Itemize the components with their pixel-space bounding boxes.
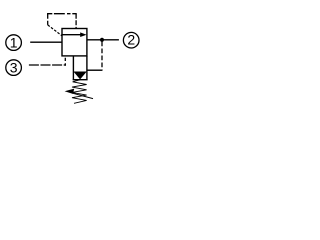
wire port 1 to valve — [30, 41, 62, 43]
pilot dashed box right edge — [75, 14, 77, 29]
svg-text:1: 1 — [10, 35, 18, 51]
wire spring chamber right — [87, 69, 103, 71]
pilot line dashed vertical right — [101, 42, 103, 71]
seat bottom edge — [73, 79, 88, 81]
port balloon 3 — [6, 59, 22, 75]
main valve box — [62, 29, 87, 56]
svg-text:2: 2 — [127, 32, 135, 48]
spring — [72, 80, 87, 104]
wire port 2 from valve — [87, 39, 119, 41]
pilot diagonal dashed line — [48, 25, 62, 36]
background — [0, 0, 151, 121]
pilot dashed box left edge — [47, 14, 49, 25]
drain dashed vertical to box bottom — [64, 58, 66, 66]
poppet triangle — [73, 72, 86, 80]
seat right wall (box edge extension) — [86, 56, 88, 80]
junction dot — [100, 38, 104, 42]
port balloon 1 — [6, 35, 22, 51]
port balloon 2 — [123, 32, 139, 48]
pilot dashed box top edge — [47, 13, 77, 15]
seat left wall — [72, 56, 74, 80]
spring adjust arrow — [65, 89, 93, 99]
drain dashed line port 3 — [29, 64, 66, 66]
flow arrow inside box — [63, 32, 87, 37]
svg-text:3: 3 — [10, 59, 18, 75]
